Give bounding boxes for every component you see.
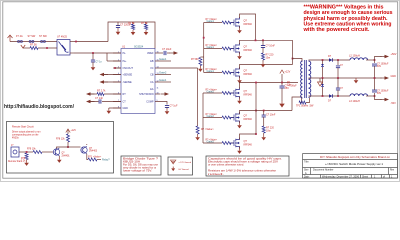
svg-text:CT: CT bbox=[123, 100, 127, 103]
svg-text:Gate1: Gate1 bbox=[159, 78, 167, 82]
svg-text:DIY hifiaudio.blogspot.com: DIY hifiaudio.blogspot.com Diy Schematic… bbox=[320, 156, 391, 159]
svg-text:2: 2 bbox=[118, 59, 119, 61]
svg-text:1: 1 bbox=[118, 51, 119, 53]
svg-text:corresponding pins on the: corresponding pins on the bbox=[12, 133, 39, 136]
svg-text:CB: CB bbox=[150, 73, 154, 76]
svg-text:C? 1000uF: C? 1000uF bbox=[377, 64, 389, 66]
svg-text:TF1 50kHz .5W: TF1 50kHz .5W bbox=[296, 105, 314, 108]
svg-text:+12V: +12V bbox=[71, 130, 77, 132]
svg-text:GND: GND bbox=[123, 107, 129, 110]
svg-text:IRF540: IRF540 bbox=[244, 142, 253, 146]
svg-text:2N4403: 2N4403 bbox=[89, 151, 98, 153]
svg-text:HV Ground: HV Ground bbox=[179, 168, 190, 171]
svg-text:C? 1n: C? 1n bbox=[96, 62, 103, 64]
svg-text:10w: 10w bbox=[266, 129, 271, 132]
svg-text:Sheet: Sheet bbox=[362, 175, 368, 178]
svg-text:S? SW: S? SW bbox=[39, 35, 47, 38]
svg-text:Remote Start: Remote Start bbox=[8, 160, 22, 163]
svg-text:Gate2: Gate2 bbox=[159, 71, 167, 75]
svg-text:R? 2.7k: R? 2.7k bbox=[97, 90, 106, 93]
svg-text:+50V: +50V bbox=[391, 53, 397, 56]
svg-text:Relay?: Relay? bbox=[102, 159, 110, 162]
svg-text:http://hifiaudio.blogspot.com/: http://hifiaudio.blogspot.com/ bbox=[4, 104, 74, 110]
svg-text:Document Number: Document Number bbox=[313, 169, 334, 172]
svg-text:-50V: -50V bbox=[391, 102, 397, 105]
svg-text:F? 4A: F? 4A bbox=[16, 35, 23, 38]
svg-text:Date:: Date: bbox=[304, 175, 310, 178]
svg-text:IRF540: IRF540 bbox=[244, 117, 253, 121]
svg-text:+SENSE: +SENSE bbox=[123, 73, 133, 76]
svg-text:R? 56: R? 56 bbox=[30, 43, 37, 46]
svg-text:VC: VC bbox=[150, 67, 154, 70]
svg-text:C? 1uF: C? 1uF bbox=[170, 105, 179, 108]
svg-text:Wednesday, December 27, 2006: Wednesday, December 27, 2006 bbox=[322, 175, 360, 178]
svg-text:C? 10uF: C? 10uF bbox=[162, 48, 172, 51]
svg-text:IN-: IN- bbox=[123, 52, 126, 55]
svg-text:63V: 63V bbox=[377, 66, 382, 68]
svg-text:R? 5k: R? 5k bbox=[128, 22, 135, 25]
svg-text:10w: 10w bbox=[266, 56, 271, 59]
svg-text:4N35s: 4N35s bbox=[12, 137, 19, 139]
svg-text:SG3524: SG3524 bbox=[134, 45, 144, 48]
svg-text:VREF: VREF bbox=[147, 52, 154, 55]
svg-text:lower voltage of 75V.: lower voltage of 75V. bbox=[123, 170, 152, 173]
svg-text:COMP: COMP bbox=[146, 100, 154, 103]
svg-text:L2 100uH: L2 100uH bbox=[349, 55, 360, 58]
svg-text:EB: EB bbox=[150, 60, 154, 63]
svg-text:R?8 12k: R?8 12k bbox=[56, 139, 65, 141]
svg-text:Driver output planned to run: Driver output planned to run bbox=[12, 130, 41, 133]
svg-text:25V: 25V bbox=[285, 87, 290, 90]
svg-text:GND: GND bbox=[391, 75, 397, 78]
svg-text:63V: 63V bbox=[377, 93, 382, 95]
svg-text:C? 1000uF: C? 1000uF bbox=[377, 91, 389, 93]
svg-text:C? 10nF: C? 10nF bbox=[266, 114, 276, 117]
svg-text:11: 11 bbox=[157, 87, 159, 89]
svg-text:RT: RT bbox=[123, 93, 127, 96]
svg-text:C? 10nF: C? 10nF bbox=[266, 45, 276, 48]
svg-text:Size: Size bbox=[304, 170, 309, 172]
svg-text:C? 1nF: C? 1nF bbox=[95, 97, 104, 100]
svg-text:noted.: noted. bbox=[208, 173, 225, 176]
svg-text:EA: EA bbox=[150, 88, 154, 91]
svg-text:+/-50VDC Switch Mode Power Sup: +/-50VDC Switch Mode Power Supply ver.1 bbox=[325, 162, 384, 166]
svg-text:R? 560: R? 560 bbox=[191, 59, 199, 61]
svg-text:IRF540: IRF540 bbox=[244, 48, 253, 52]
svg-text:IRF540: IRF540 bbox=[244, 92, 253, 96]
svg-text:IN+: IN+ bbox=[123, 60, 127, 63]
svg-text:R? 5k: R? 5k bbox=[141, 22, 148, 25]
svg-text:SHUTDOWN: SHUTDOWN bbox=[139, 93, 154, 96]
svg-text:IRF540: IRF540 bbox=[244, 72, 253, 76]
svg-text:Title:: Title: bbox=[304, 160, 310, 163]
svg-text:-SENSE: -SENSE bbox=[123, 81, 132, 84]
svg-text:S? SW: S? SW bbox=[28, 35, 36, 38]
svg-text:L3 100uH: L3 100uH bbox=[349, 100, 360, 103]
svg-text:Gate1: Gate1 bbox=[159, 57, 167, 61]
svg-text:with the powered circuit.: with the powered circuit. bbox=[302, 27, 370, 33]
svg-text:OSCOUT: OSCOUT bbox=[123, 67, 134, 70]
svg-text:+12V: +12V bbox=[285, 71, 291, 74]
svg-text:Remote Start Circuit: Remote Start Circuit bbox=[12, 126, 34, 129]
svg-text:= 12V Ground: = 12V Ground bbox=[179, 161, 192, 164]
svg-text:R?9 10k: R?9 10k bbox=[27, 148, 36, 150]
svg-text:2N4401: 2N4401 bbox=[62, 155, 71, 157]
svg-text:IRF540: IRF540 bbox=[244, 22, 253, 26]
svg-text:U? 4N25: U? 4N25 bbox=[57, 36, 67, 39]
svg-text:CA: CA bbox=[150, 81, 154, 84]
svg-text:or over unless otherwise noted: or over unless otherwise noted. bbox=[208, 164, 244, 167]
